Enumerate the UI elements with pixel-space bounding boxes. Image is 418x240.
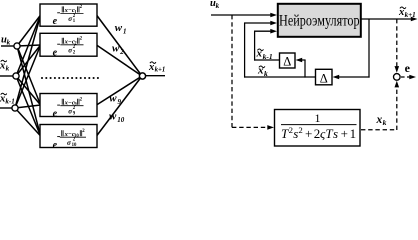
svg-text:2: 2 (298, 125, 302, 135)
block delta2 (316, 69, 333, 85)
arrowhead into summer bottom (395, 81, 400, 88)
svg-text:e: e (405, 61, 411, 75)
wire input stub x~_k (0, 75, 13, 77)
wire u_k to neuroemulator (211, 14, 272, 16)
svg-text:w: w (109, 92, 117, 104)
svg-text:x: x (376, 114, 383, 126)
wire n3-box4 (15, 108, 41, 136)
node output circle (139, 73, 145, 79)
wire NE output (361, 18, 412, 20)
wire output (146, 75, 165, 77)
wire box3-out (97, 76, 143, 105)
wire box2-out (97, 45, 143, 76)
wire dashed e output (401, 76, 410, 78)
RBF box2 formula (53, 37, 84, 59)
svg-text:Δ: Δ (283, 55, 291, 69)
wire n1-box3 (17, 46, 41, 105)
svg-text:10: 10 (72, 143, 77, 148)
wire input stub u_k (1, 45, 14, 47)
wire n2-box3 (16, 76, 41, 105)
svg-text:2: 2 (119, 48, 124, 56)
RBF neuron box 4 (40, 125, 97, 148)
arrowhead NE input 3 (270, 29, 277, 34)
svg-text:k+1: k+1 (155, 67, 166, 74)
svg-text:1: 1 (123, 27, 127, 35)
svg-text:k-1: k-1 (5, 97, 14, 105)
wires input nodes to RBF boxes (15, 15, 41, 136)
RBF box3 formula (53, 97, 84, 119)
block plant transfer function (275, 110, 361, 147)
svg-text:k: k (6, 64, 10, 72)
svg-text:+: + (305, 126, 312, 141)
wire x~_k line (244, 76, 316, 78)
wire vertical x=244 (244, 23, 246, 78)
wire n1-box2 (17, 45, 41, 46)
svg-text:e: e (53, 48, 58, 59)
wire delta1 output (254, 59, 279, 61)
wire dashed into plant (232, 126, 269, 128)
svg-text:k: k (216, 2, 220, 10)
svg-text:Нейроэмулятор: Нейроэмулятор (279, 13, 360, 30)
wire into delta1 (300, 59, 306, 61)
wire vertical x=254 (254, 31, 256, 60)
RBF box1 formula (53, 5, 84, 27)
node input circle 1 (14, 43, 20, 49)
svg-text:e: e (53, 16, 58, 27)
node summer (394, 74, 401, 81)
arrowhead NE output (411, 17, 418, 22)
RBF box4 formula (53, 129, 86, 151)
node input circle 3 (12, 105, 18, 111)
arrowhead into delta2 (333, 75, 340, 80)
dotted separator (41, 77, 99, 79)
arrowhead e output (409, 75, 416, 80)
arrowhead NE input 2 (270, 21, 277, 26)
svg-text:k+1: k+1 (405, 11, 416, 19)
svg-text:9: 9 (118, 98, 122, 106)
wire n2-box1 (16, 15, 41, 76)
svg-text:s: s (333, 126, 338, 141)
svg-text:10: 10 (117, 116, 125, 124)
RBF neuron box 3 (40, 94, 97, 117)
svg-text:w: w (109, 110, 117, 122)
arrowhead into delta1 (296, 58, 303, 63)
wire dashed down to summer (396, 19, 398, 68)
wire NE input 3 (254, 30, 272, 32)
wire box1-out (97, 15, 143, 76)
svg-text:k: k (383, 118, 387, 127)
svg-text:e: e (53, 140, 58, 151)
svg-text:e: e (53, 108, 58, 119)
wire vertical x=305 (304, 60, 306, 78)
wire box4-out (97, 76, 143, 136)
arrowhead into plant (267, 125, 274, 130)
svg-text:Δ: Δ (320, 71, 328, 85)
wire n2-box4 (16, 76, 41, 136)
wire dashed branch u_k down (231, 15, 233, 128)
node input circle 2 (13, 73, 19, 79)
arrowhead into summer top (395, 66, 400, 73)
RBF neuron box 1 (40, 4, 97, 26)
svg-text:w: w (112, 43, 120, 55)
wire n3-box1 (15, 15, 41, 108)
svg-text:1: 1 (350, 126, 357, 141)
wire into delta2 (337, 76, 370, 78)
wire feedback vertical x=369 (368, 19, 370, 78)
svg-text:1: 1 (315, 111, 321, 125)
svg-text:+: + (341, 126, 348, 141)
arrowhead into NE input 1 (270, 13, 277, 18)
block delta1 (280, 53, 296, 68)
svg-text:w: w (115, 22, 123, 34)
wire n3-box3 (15, 105, 41, 108)
wire input stub x~_k-1 (0, 107, 12, 109)
wire dashed plant output (361, 129, 397, 131)
wire n3-box2 (15, 45, 41, 108)
wire n2-box2 (16, 45, 41, 76)
wire NE input 2 (244, 22, 272, 24)
wire n1-box1 (17, 15, 41, 46)
RBF neuron box 2 (40, 33, 97, 56)
block neuroemulator (278, 4, 361, 37)
wire n1-box4 (17, 46, 41, 136)
wire dashed up from x_k (396, 86, 398, 130)
plant denominator (281, 125, 356, 141)
wires RBF boxes to output node (97, 15, 143, 136)
